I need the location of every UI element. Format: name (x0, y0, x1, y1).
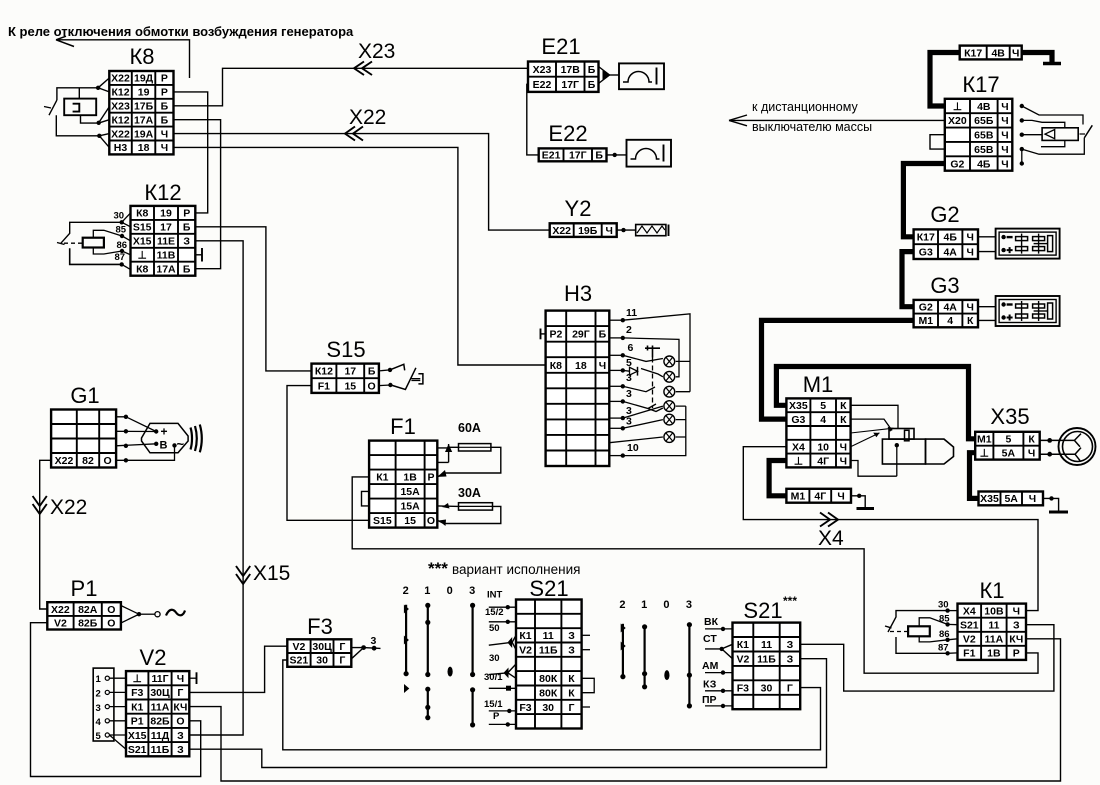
wire V2 row2 to F3 row1 (189, 646, 287, 692)
svg-text:Х4: Х4 (963, 605, 976, 617)
fuse 60A (382, 421, 501, 477)
switch block S15 (312, 337, 379, 393)
svg-text:О: О (107, 604, 115, 616)
battery block G2 (914, 202, 978, 259)
svg-text:К реле отключения обмотки возб: К реле отключения обмотки возбуждения ге… (8, 24, 354, 39)
S21 right stubs (582, 635, 595, 707)
connector chevron X22 down (33, 496, 47, 514)
relay K8 contacts and coil (44, 78, 109, 147)
svg-text:Б: Б (595, 150, 603, 162)
svg-text:17А: 17А (134, 114, 154, 126)
svg-text:30: 30 (114, 211, 125, 222)
svg-text:З: З (568, 644, 575, 656)
svg-text:Г: Г (569, 702, 575, 714)
relay block K8 (109, 44, 173, 154)
svg-text:S21: S21 (529, 576, 568, 601)
svg-text:S15: S15 (326, 337, 365, 362)
svg-text:К: К (840, 414, 847, 426)
svg-text:Б: Б (588, 79, 596, 91)
svg-text:V2: V2 (736, 654, 749, 666)
svg-text:Г: Г (339, 655, 345, 667)
svg-text:19: 19 (160, 208, 172, 220)
svg-text:4Б: 4Б (944, 232, 958, 244)
svg-text:К8: К8 (136, 264, 148, 276)
horn connector X35 (975, 404, 1039, 460)
svg-text:вариант исполнения: вариант исполнения (452, 562, 580, 577)
E22 lamp symbol (607, 140, 672, 167)
svg-text:⊥: ⊥ (980, 447, 989, 459)
svg-text:Р: Р (493, 711, 500, 722)
connector chevron X22 (345, 127, 363, 141)
svg-text:30Ц: 30Ц (150, 687, 170, 699)
svg-text:S15: S15 (373, 515, 392, 527)
svg-text:КЧ: КЧ (1009, 634, 1023, 646)
svg-text:11: 11 (761, 639, 772, 651)
svg-text:К1: К1 (376, 472, 388, 484)
svg-text:Ч: Ч (1012, 47, 1019, 59)
generator block G1 (51, 383, 116, 468)
svg-text:60А: 60А (458, 421, 481, 435)
svg-text:F3: F3 (131, 687, 143, 699)
svg-text:17А: 17А (156, 264, 176, 276)
battery block G3 (914, 273, 978, 327)
svg-text:Y2: Y2 (565, 196, 592, 221)
wire X4: M1 row4 to K1 row1 (743, 447, 1038, 611)
wire K8 row2 to K12 row1 (174, 92, 208, 213)
svg-text:Г: Г (787, 682, 793, 694)
svg-text:Х15: Х15 (128, 730, 147, 742)
svg-text:Ч: Ч (161, 142, 168, 154)
svg-text:50: 50 (489, 623, 500, 634)
svg-text:30: 30 (316, 655, 328, 667)
lamp connector E21 (528, 34, 599, 92)
wire K12 row2 to S15 row1 (195, 227, 311, 371)
lamp connector E22 (539, 121, 607, 162)
svg-text:Х15: Х15 (253, 562, 290, 585)
svg-text:Х35: Х35 (789, 400, 808, 412)
svg-text:2: 2 (96, 689, 101, 700)
svg-text:30: 30 (489, 653, 500, 664)
svg-text:Ч: Ч (967, 246, 974, 258)
svg-text:Г: Г (177, 687, 183, 699)
svg-text:К: К (568, 687, 575, 699)
svg-text:19Д: 19Д (134, 73, 154, 85)
svg-text:Ч: Ч (1001, 101, 1008, 113)
svg-text:Р: Р (427, 472, 434, 484)
svg-text:Ч: Ч (606, 225, 613, 237)
svg-text:К17: К17 (962, 72, 999, 97)
P1 buzzer symbol (121, 606, 185, 624)
svg-text:15А: 15А (400, 501, 420, 513)
svg-text:Х15: Х15 (133, 236, 152, 248)
svg-text:11А: 11А (985, 634, 1004, 646)
annotation: к реле отключения обмотки возбуждения генератора (8, 24, 354, 39)
K12 row4 terminator symbol (195, 248, 202, 262)
svg-text:11: 11 (988, 620, 999, 632)
svg-text:Ч: Ч (837, 491, 844, 503)
thick wire G3 row2 to M1 row2 (762, 320, 914, 419)
relay K1 coil and contacts (885, 600, 958, 656)
svg-text:65В: 65В (974, 130, 994, 142)
svg-text:F3: F3 (519, 702, 531, 714)
svg-text:17Г: 17Г (569, 150, 587, 162)
starter motor symbol (882, 429, 953, 477)
svg-text:G3: G3 (791, 414, 805, 426)
svg-text:15А: 15А (400, 486, 420, 498)
wire to remote battery switch (729, 119, 945, 121)
H3 lamp wiring right (609, 314, 690, 456)
svg-text:17: 17 (160, 222, 172, 234)
svg-text:М1: М1 (803, 372, 834, 397)
svg-text:Ч: Ч (1029, 493, 1036, 505)
H3 row2 left terminator (541, 329, 546, 340)
svg-text:К17: К17 (964, 47, 982, 59)
svg-text:S15: S15 (133, 222, 152, 234)
svg-text:Ч: Ч (1001, 130, 1008, 142)
svg-text:ВК: ВК (704, 616, 719, 628)
wire V2 row3 to K1 row3 (189, 639, 1060, 781)
svg-text:5А: 5А (1002, 447, 1016, 459)
svg-text:1: 1 (424, 585, 430, 597)
svg-text:5: 5 (96, 731, 102, 742)
svg-text:***: *** (783, 594, 797, 608)
svg-text:2: 2 (626, 324, 632, 336)
thick wire K17 row5 to G2 row1 (903, 164, 944, 237)
fuse 30A (437, 486, 501, 526)
svg-text:17Б: 17Б (134, 101, 154, 113)
solenoid connector Y2 (550, 196, 617, 237)
svg-text:11Б: 11Б (539, 644, 558, 656)
wire F3 row2 to S21v row5 (283, 660, 821, 750)
ignition switch S21 variant (733, 594, 801, 709)
S21 variant left pins (702, 616, 733, 708)
svg-text:F1: F1 (963, 648, 975, 660)
svg-text:4Б: 4Б (977, 158, 991, 170)
svg-text:К: К (568, 673, 575, 685)
H3 gauge and diode cluster (623, 346, 663, 412)
wire X22: K8 row5 to Y2 (174, 134, 550, 231)
svg-text:82А: 82А (78, 604, 98, 616)
fuse block F1 (369, 414, 437, 528)
svg-text:3: 3 (371, 635, 377, 647)
svg-text:INT: INT (487, 590, 503, 601)
svg-text:Р: Р (161, 73, 168, 85)
svg-text:G1: G1 (70, 383, 99, 408)
svg-text:4Г: 4Г (814, 491, 826, 503)
svg-text:К12: К12 (144, 180, 181, 205)
Y2 resistor symbol (617, 225, 669, 237)
svg-text:F1: F1 (390, 414, 416, 439)
svg-text:65В: 65В (974, 144, 994, 156)
ground symbol at X35 (1043, 496, 1068, 512)
svg-text:Х23: Х23 (533, 64, 552, 76)
svg-text:Ч: Ч (1013, 605, 1020, 617)
svg-text:18: 18 (138, 142, 150, 154)
svg-text:19: 19 (138, 87, 150, 99)
V2 pin box (93, 668, 126, 749)
svg-text:***: *** (428, 559, 448, 578)
E21 arrow and lamp symbol (599, 63, 665, 89)
thick wire M1 row1 to X35 row1 (776, 367, 975, 439)
svg-text:S21: S21 (743, 598, 782, 623)
svg-text:+: + (161, 425, 168, 439)
M1 wires to starter (851, 405, 898, 476)
svg-text:Х22: Х22 (51, 604, 70, 616)
label X22 left (50, 496, 87, 519)
relay K12 coil and contacts (57, 211, 131, 270)
thick wire M1 row5 to ground table (769, 461, 786, 496)
S15 switch symbol (379, 364, 423, 389)
svg-text:1: 1 (641, 599, 647, 611)
svg-text:11: 11 (626, 307, 637, 319)
H3 output pins (609, 307, 639, 458)
relay block K17 (945, 72, 1013, 171)
svg-text:З: З (177, 730, 184, 742)
svg-text:30: 30 (542, 702, 554, 714)
svg-text:Х35: Х35 (980, 493, 999, 505)
svg-text:G2: G2 (950, 158, 964, 170)
wire K8 row4 to K12 row5 (174, 120, 221, 269)
svg-text:Б: Б (183, 264, 191, 276)
svg-text:0: 0 (663, 599, 669, 611)
svg-text:О: О (368, 380, 376, 392)
svg-text:V2: V2 (140, 645, 167, 670)
svg-text:Х22: Х22 (111, 73, 130, 85)
wire E21 row2 to E22 (527, 84, 539, 155)
svg-text:3: 3 (626, 388, 632, 400)
buzzer block P1 (47, 576, 121, 630)
svg-text:30: 30 (761, 682, 773, 694)
svg-text:К1: К1 (737, 639, 749, 651)
wire X15: K12 row3 to V2 row5 (189, 241, 243, 735)
svg-text:18: 18 (575, 360, 587, 372)
svg-text:3: 3 (469, 585, 475, 597)
indicator lamps H3 (664, 356, 675, 442)
svg-text:Б: Б (161, 101, 169, 113)
svg-text:Р1: Р1 (131, 716, 144, 728)
svg-text:Ч: Ч (1001, 158, 1008, 170)
svg-text:Р: Р (161, 87, 168, 99)
svg-text:Р2: Р2 (549, 329, 562, 341)
svg-text:82Б: 82Б (78, 618, 98, 630)
svg-text:К12: К12 (111, 114, 129, 126)
ground connector X35-5A (979, 492, 1044, 506)
svg-text:S21: S21 (290, 655, 309, 667)
svg-text:1: 1 (96, 674, 102, 685)
svg-text:17В: 17В (561, 64, 581, 76)
K17 switch mechanism (1020, 104, 1093, 166)
svg-text:КЗ: КЗ (703, 679, 717, 691)
svg-text:10В: 10В (984, 605, 1004, 617)
svg-text:5А: 5А (1004, 493, 1018, 505)
S21 left pins (484, 590, 516, 727)
svg-text:Б: Б (588, 64, 596, 76)
svg-text:Х22: Х22 (349, 106, 386, 129)
svg-text:⊥: ⊥ (133, 673, 142, 685)
svg-text:10: 10 (817, 442, 829, 454)
thick wire G2 row2 to G3 row1 (902, 252, 914, 307)
svg-text:З: З (787, 654, 794, 666)
svg-text:19А: 19А (134, 128, 154, 140)
thick wire K17top to K17 row1 (930, 53, 960, 107)
svg-text:11Д: 11Д (151, 730, 170, 742)
svg-text:11Е: 11Е (157, 236, 175, 248)
svg-text:15: 15 (404, 515, 416, 527)
K17 rows3-4 left bracket (930, 135, 945, 149)
svg-text:V2: V2 (54, 618, 67, 630)
svg-text:4: 4 (96, 717, 102, 728)
svg-text:Б: Б (368, 366, 376, 378)
svg-text:Р: Р (1013, 648, 1020, 660)
svg-text:⊥: ⊥ (794, 455, 803, 467)
label X22 top (349, 106, 386, 129)
svg-text:80К: 80К (539, 687, 558, 699)
svg-text:Х23: Х23 (358, 40, 395, 63)
svg-text:Ч: Ч (1001, 144, 1008, 156)
svg-text:О: О (176, 716, 184, 728)
position chart right of S21 (619, 599, 692, 709)
svg-text:Х20: Х20 (948, 115, 967, 127)
svg-text:К17: К17 (917, 232, 935, 244)
svg-text:Ч: Ч (599, 360, 606, 372)
svg-text:В: В (160, 440, 168, 452)
svg-text:Б: Б (599, 329, 607, 341)
svg-text:К12: К12 (111, 87, 129, 99)
svg-text:19Б: 19Б (578, 225, 598, 237)
svg-text:Х23: Х23 (111, 101, 130, 113)
svg-text:Х22: Х22 (111, 128, 130, 140)
svg-text:Е22: Е22 (548, 121, 587, 146)
svg-text:Н3: Н3 (564, 281, 592, 306)
svg-text:Ч: Ч (161, 128, 168, 140)
svg-text:К1: К1 (131, 701, 143, 713)
svg-text:⊥: ⊥ (953, 101, 962, 113)
svg-text:2: 2 (619, 599, 625, 611)
svg-text:1В: 1В (987, 648, 1001, 660)
V2 row1 terminator (189, 672, 196, 684)
svg-text:29Г: 29Г (572, 329, 590, 341)
annotation: вариант исполнения (428, 559, 580, 578)
svg-text:М1: М1 (977, 434, 992, 446)
instrument cluster H3 (546, 281, 610, 466)
svg-text:5: 5 (1005, 434, 1011, 446)
wire K8 row6 to H3 row4 (174, 147, 546, 365)
svg-text:Ч: Ч (1028, 447, 1035, 459)
arrowhead remote switch (729, 115, 747, 126)
svg-text:КЧ: КЧ (173, 701, 187, 713)
svg-text:15: 15 (344, 380, 356, 392)
svg-text:К8: К8 (550, 360, 562, 372)
svg-text:М1: М1 (791, 491, 806, 503)
svg-text:F3: F3 (307, 614, 333, 639)
svg-text:~: ~ (177, 437, 185, 452)
svg-text:65Б: 65Б (974, 115, 994, 127)
svg-text:Х4: Х4 (792, 442, 805, 454)
F3 right contact (351, 635, 380, 659)
svg-text:30А: 30А (458, 486, 481, 500)
svg-text:17: 17 (344, 366, 356, 378)
svg-text:Е22: Е22 (533, 79, 552, 91)
svg-text:4В: 4В (977, 101, 991, 113)
wire S15 row2 to F1 row6 (287, 386, 369, 521)
svg-text:О: О (107, 618, 115, 630)
svg-text:11В: 11В (157, 250, 176, 262)
connector K17-4V (960, 46, 1022, 60)
svg-text:Х22: Х22 (55, 455, 74, 467)
svg-text:Б: Б (183, 222, 191, 234)
svg-text:З: З (568, 630, 575, 642)
svg-text:1В: 1В (403, 472, 417, 484)
svg-text:3: 3 (96, 703, 101, 714)
svg-text:З: З (177, 744, 184, 756)
ground symbol at M1 (851, 494, 874, 509)
svg-text:F3: F3 (737, 682, 749, 694)
svg-text:G3: G3 (919, 246, 933, 258)
svg-text:О: О (104, 455, 112, 467)
svg-text:Х22: Х22 (50, 496, 87, 519)
svg-text:15/1: 15/1 (484, 699, 503, 710)
svg-text:К1: К1 (979, 578, 1004, 603)
ground at K17 top (1043, 62, 1061, 65)
svg-text:Н3: Н3 (114, 142, 128, 154)
svg-text:11Б: 11Б (757, 654, 776, 666)
electronic block V2 (126, 645, 189, 756)
svg-text:Ч: Ч (840, 455, 847, 467)
thick wire K17top to ground (1022, 53, 1052, 63)
svg-text:82: 82 (82, 455, 94, 467)
label X15 (253, 562, 290, 585)
arrow to excitation relay (56, 36, 190, 78)
svg-text:Ч: Ч (840, 442, 847, 454)
svg-text:Г: Г (339, 641, 345, 653)
thick wire X35 row2 to ground table (970, 453, 979, 499)
svg-text:Ч: Ч (177, 673, 184, 685)
svg-text:АМ: АМ (702, 660, 719, 672)
svg-text:4В: 4В (991, 47, 1005, 59)
wire S21 variant row2 to K1 row2 (800, 625, 1054, 691)
fuse block F3 (287, 614, 351, 667)
svg-text:З: З (1013, 620, 1020, 632)
svg-text:4: 4 (820, 414, 826, 426)
svg-text:Х22: Х22 (552, 225, 571, 237)
svg-text:6: 6 (628, 342, 634, 354)
ignition switch S21 (516, 576, 582, 729)
svg-text:К: К (1028, 434, 1035, 446)
svg-text:К8: К8 (136, 208, 148, 220)
F1 rows4-5 left bracket (362, 491, 370, 506)
connector chevron X15 down (236, 566, 250, 584)
svg-text:⊥: ⊥ (138, 250, 147, 262)
wire F1 row3 to K1 row4 (352, 477, 1038, 673)
svg-text:Х4: Х4 (818, 527, 844, 550)
connector chevron X4 (820, 513, 838, 527)
svg-text:15/2: 15/2 (485, 607, 504, 618)
svg-text:Ч: Ч (1001, 115, 1008, 127)
relay block K12 (131, 180, 196, 276)
connector chevron X23 (354, 62, 372, 76)
svg-text:V2: V2 (963, 634, 976, 646)
battery symbol G2 (978, 229, 1060, 259)
svg-text:2: 2 (403, 585, 409, 597)
svg-text:11Б: 11Б (151, 744, 170, 756)
svg-text:G2: G2 (919, 302, 933, 314)
svg-text:30Ц: 30Ц (312, 641, 332, 653)
svg-text:К1: К1 (519, 630, 531, 642)
svg-text:G3: G3 (930, 273, 959, 298)
svg-text:0: 0 (447, 585, 453, 597)
svg-text:К12: К12 (315, 366, 333, 378)
svg-text:СТ: СТ (703, 633, 717, 645)
